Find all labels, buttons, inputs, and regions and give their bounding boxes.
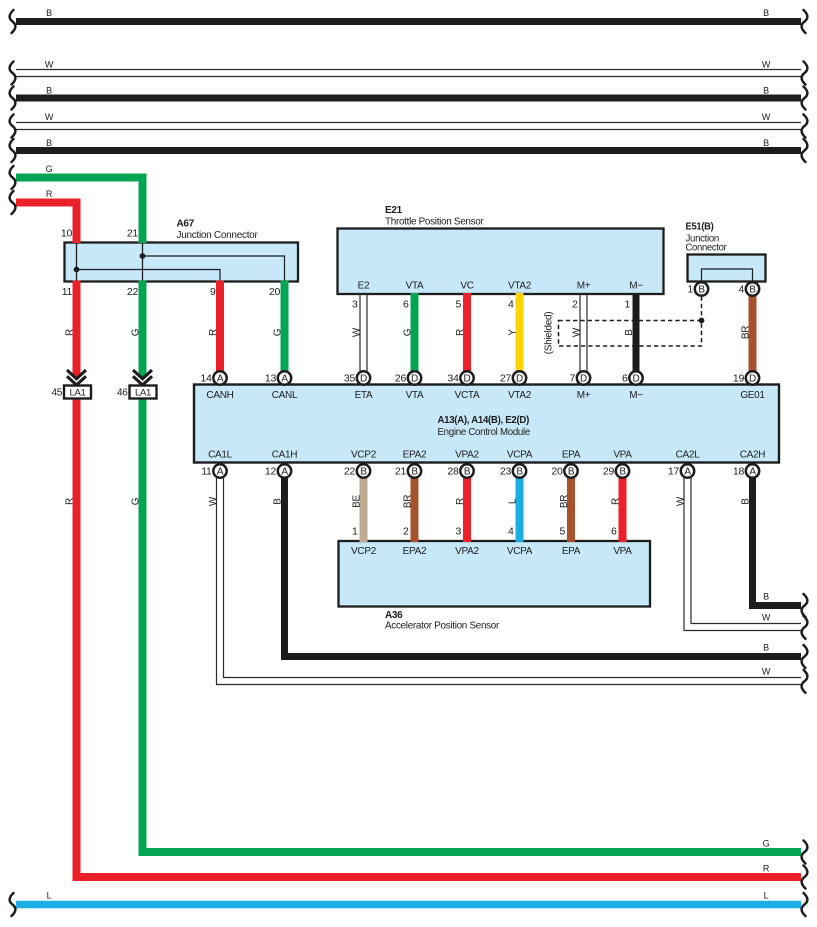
- svg-text:A67: A67: [177, 219, 195, 230]
- svg-text:VPA2: VPA2: [455, 546, 479, 557]
- svg-text:19: 19: [733, 373, 745, 385]
- svg-text:CANH: CANH: [206, 390, 233, 401]
- svg-text:W: W: [762, 112, 771, 122]
- svg-text:R: R: [763, 864, 770, 874]
- svg-text:2: 2: [403, 526, 409, 538]
- svg-text:VC: VC: [460, 281, 473, 292]
- svg-text:EPA2: EPA2: [403, 450, 427, 461]
- svg-text:1: 1: [352, 526, 358, 538]
- svg-text:G: G: [273, 328, 284, 336]
- svg-text:A: A: [749, 467, 756, 478]
- svg-text:CA2L: CA2L: [676, 450, 701, 461]
- svg-text:E21: E21: [385, 205, 403, 216]
- svg-text:BE: BE: [352, 495, 363, 508]
- svg-text:G: G: [46, 164, 53, 174]
- svg-text:B: B: [763, 592, 769, 602]
- svg-text:B: B: [46, 86, 52, 96]
- svg-text:BR: BR: [403, 495, 414, 508]
- svg-text:G: G: [763, 839, 770, 849]
- svg-text:A13(A), A14(B), E2(D): A13(A), A14(B), E2(D): [438, 415, 530, 426]
- svg-text:L: L: [508, 498, 519, 504]
- svg-text:11: 11: [62, 286, 73, 298]
- svg-text:6: 6: [611, 526, 617, 538]
- svg-text:R: R: [65, 498, 76, 505]
- svg-text:VTA2: VTA2: [508, 390, 532, 401]
- svg-text:D: D: [464, 374, 471, 385]
- svg-text:20: 20: [551, 466, 563, 478]
- svg-text:1: 1: [624, 299, 630, 311]
- svg-text:LA1: LA1: [135, 387, 151, 398]
- svg-text:14: 14: [200, 373, 212, 385]
- svg-text:ETA: ETA: [355, 390, 373, 401]
- svg-text:5: 5: [455, 299, 461, 311]
- svg-text:D: D: [516, 374, 523, 385]
- svg-text:17: 17: [668, 466, 680, 478]
- svg-text:B: B: [763, 643, 769, 653]
- svg-text:G: G: [131, 497, 142, 505]
- svg-text:22: 22: [127, 286, 139, 298]
- svg-text:27: 27: [500, 373, 512, 385]
- svg-text:B: B: [411, 467, 418, 478]
- svg-text:23: 23: [500, 466, 512, 478]
- svg-text:E2: E2: [358, 281, 370, 292]
- svg-text:Throttle Position Sensor: Throttle Position Sensor: [385, 217, 484, 228]
- svg-text:D: D: [360, 374, 367, 385]
- svg-text:EPA: EPA: [562, 450, 581, 461]
- svg-text:W: W: [762, 60, 771, 70]
- svg-text:(Shielded): (Shielded): [544, 312, 555, 355]
- svg-text:21: 21: [395, 466, 407, 478]
- svg-text:2: 2: [572, 299, 578, 311]
- svg-text:VCTA: VCTA: [455, 390, 480, 401]
- svg-text:M−: M−: [629, 281, 643, 292]
- svg-text:G: G: [403, 328, 414, 336]
- svg-text:A36: A36: [385, 610, 403, 621]
- svg-text:D: D: [411, 374, 418, 385]
- svg-text:B: B: [619, 467, 626, 478]
- svg-text:18: 18: [733, 466, 745, 478]
- svg-text:7: 7: [569, 373, 575, 385]
- svg-text:B: B: [464, 467, 471, 478]
- svg-text:4: 4: [508, 526, 514, 538]
- svg-text:46: 46: [117, 387, 128, 398]
- svg-text:11: 11: [201, 466, 212, 478]
- svg-text:W: W: [352, 327, 363, 337]
- svg-text:LA1: LA1: [69, 387, 85, 398]
- svg-text:B: B: [763, 8, 769, 18]
- svg-text:B: B: [46, 8, 52, 18]
- svg-text:B: B: [741, 498, 752, 505]
- svg-text:22: 22: [344, 466, 356, 478]
- svg-text:D: D: [749, 374, 756, 385]
- svg-text:G: G: [131, 328, 142, 336]
- svg-text:26: 26: [395, 373, 407, 385]
- svg-text:6: 6: [403, 299, 409, 311]
- svg-text:Y: Y: [508, 329, 519, 336]
- svg-text:28: 28: [447, 466, 459, 478]
- svg-text:W: W: [762, 666, 771, 676]
- svg-text:VTA: VTA: [406, 281, 424, 292]
- svg-text:B: B: [46, 138, 52, 148]
- svg-text:EPA: EPA: [562, 546, 581, 557]
- svg-text:35: 35: [344, 373, 356, 385]
- svg-text:6: 6: [622, 373, 628, 385]
- svg-text:W: W: [676, 496, 687, 506]
- svg-text:21: 21: [127, 228, 139, 240]
- svg-text:B: B: [568, 467, 575, 478]
- svg-text:9: 9: [210, 286, 216, 298]
- svg-text:D: D: [633, 374, 640, 385]
- svg-text:GE01: GE01: [740, 390, 765, 401]
- svg-text:L: L: [764, 891, 769, 901]
- svg-text:13: 13: [265, 373, 277, 385]
- svg-text:A: A: [684, 467, 691, 478]
- svg-text:34: 34: [447, 373, 459, 385]
- svg-text:VPA2: VPA2: [455, 450, 479, 461]
- svg-text:R: R: [46, 189, 53, 199]
- svg-text:3: 3: [455, 526, 461, 538]
- svg-text:B: B: [273, 498, 284, 505]
- svg-text:B: B: [516, 467, 523, 478]
- svg-text:CA1L: CA1L: [208, 450, 233, 461]
- svg-text:Junction Connector: Junction Connector: [177, 230, 259, 241]
- svg-text:VCPA: VCPA: [507, 546, 533, 557]
- svg-text:29: 29: [603, 466, 615, 478]
- svg-text:20: 20: [269, 286, 281, 298]
- svg-text:W: W: [45, 112, 54, 122]
- svg-text:W: W: [572, 327, 583, 337]
- svg-text:BR: BR: [741, 326, 752, 339]
- svg-text:CANL: CANL: [272, 390, 298, 401]
- svg-text:B: B: [749, 285, 756, 296]
- svg-text:M+: M+: [577, 281, 591, 292]
- svg-text:3: 3: [352, 299, 358, 311]
- svg-text:1: 1: [687, 284, 693, 296]
- svg-text:A: A: [281, 467, 288, 478]
- svg-text:4: 4: [738, 284, 744, 296]
- svg-text:B: B: [360, 467, 367, 478]
- svg-text:W: W: [208, 496, 219, 506]
- svg-text:E51(B): E51(B): [686, 222, 714, 233]
- svg-text:VTA: VTA: [406, 390, 424, 401]
- svg-text:B: B: [763, 138, 769, 148]
- svg-text:W: W: [45, 60, 54, 70]
- svg-text:W: W: [762, 612, 771, 622]
- svg-text:CA2H: CA2H: [740, 450, 766, 461]
- svg-text:R: R: [611, 498, 622, 505]
- svg-text:12: 12: [265, 466, 277, 478]
- svg-text:R: R: [208, 329, 219, 336]
- svg-text:4: 4: [508, 299, 514, 311]
- svg-text:R: R: [455, 329, 466, 336]
- svg-text:EPA2: EPA2: [403, 546, 427, 557]
- svg-text:45: 45: [51, 387, 62, 398]
- svg-text:VCP2: VCP2: [351, 450, 377, 461]
- svg-text:A: A: [217, 374, 224, 385]
- svg-text:VPA: VPA: [613, 546, 632, 557]
- svg-text:A: A: [281, 374, 288, 385]
- svg-text:A: A: [217, 467, 224, 478]
- svg-text:CA1H: CA1H: [272, 450, 298, 461]
- svg-text:VTA2: VTA2: [508, 281, 532, 292]
- svg-text:Connector: Connector: [686, 243, 728, 254]
- svg-text:BR: BR: [559, 495, 570, 508]
- svg-text:VCP2: VCP2: [351, 546, 377, 557]
- svg-text:Engine Control Module: Engine Control Module: [438, 427, 531, 438]
- svg-text:M+: M+: [577, 390, 591, 401]
- svg-text:VCPA: VCPA: [507, 450, 533, 461]
- svg-text:B: B: [624, 329, 635, 336]
- svg-text:10: 10: [61, 228, 73, 240]
- svg-text:D: D: [580, 374, 587, 385]
- svg-text:R: R: [65, 329, 76, 336]
- svg-text:L: L: [47, 891, 52, 901]
- svg-text:R: R: [455, 498, 466, 505]
- svg-text:M−: M−: [629, 390, 643, 401]
- svg-text:B: B: [763, 86, 769, 96]
- svg-text:B: B: [698, 285, 705, 296]
- svg-text:5: 5: [559, 526, 565, 538]
- svg-text:Accelerator Position Sensor: Accelerator Position Sensor: [385, 621, 500, 632]
- svg-text:VPA: VPA: [613, 450, 632, 461]
